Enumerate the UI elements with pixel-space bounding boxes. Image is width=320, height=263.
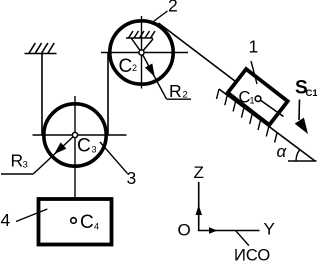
- svg-text:2: 2: [183, 90, 188, 101]
- svg-text:C1: C1: [306, 88, 318, 99]
- node C3 centerlines (crosshair of pulley 3, hanger to block 4): [33, 134, 127, 136]
- svg-text:2: 2: [132, 63, 137, 73]
- wire: rope from pulley 2 to load 1 (upper segment): [159, 23, 259, 99]
- label ISO with leader: [236, 231, 249, 246]
- radius R2 arrow: [142, 53, 167, 100]
- inclined plane surface line: [219, 89, 315, 161]
- svg-text:3: 3: [127, 168, 137, 188]
- svg-text:1: 1: [249, 37, 259, 57]
- svg-text:C: C: [119, 56, 133, 77]
- load block 4: [39, 199, 112, 245]
- wire: rope from wall support to pulley 3: [41, 54, 43, 136]
- Y axis arrowhead: [209, 227, 218, 234]
- pin support of pulley 2 (hatched bracket): [126, 31, 155, 53]
- svg-text:C: C: [80, 212, 94, 233]
- node C2 centerlines (crosshair of pulley 2): [101, 52, 188, 54]
- wall support (fixed ceiling, top-left): [25, 43, 57, 54]
- label 3 with leader: [100, 142, 128, 174]
- svg-text:4: 4: [1, 210, 11, 230]
- label 4 with leader: [16, 209, 47, 222]
- inclined plane hatching: [217, 89, 278, 143]
- radius R3 arrow: [33, 135, 75, 174]
- svg-text:4: 4: [94, 222, 99, 232]
- svg-text:Y: Y: [264, 220, 275, 239]
- baseline of angle alpha: [288, 160, 317, 162]
- wire: rope from pulley 2 to load 1 (segment inside block): [258, 99, 284, 117]
- label 1 with leader: [251, 61, 257, 84]
- svg-text:O: O: [178, 221, 191, 240]
- coordinate axes (inertial frame): [199, 182, 260, 231]
- svg-text:α: α: [277, 142, 288, 161]
- svg-text:2: 2: [168, 0, 178, 16]
- svg-text:C: C: [77, 136, 91, 157]
- angle alpha arc: [296, 150, 300, 161]
- node C1: [255, 96, 261, 102]
- label 2 with leader: [152, 11, 168, 23]
- svg-text:3: 3: [23, 160, 28, 171]
- pin node at C2: [139, 50, 144, 55]
- svg-text:ИСО: ИСО: [234, 247, 270, 263]
- block 1 on incline: [228, 69, 288, 125]
- label R2 with leader underline: [167, 98, 192, 100]
- pulley 3: [44, 104, 106, 166]
- svg-text:R: R: [169, 81, 182, 101]
- svg-text:1: 1: [250, 96, 255, 106]
- Z axis arrowhead: [196, 205, 203, 215]
- label R3 with leader underline: [1, 173, 33, 175]
- pin node at C3: [72, 132, 77, 137]
- displacement vector S_C1: [298, 100, 301, 121]
- svg-text:Z: Z: [194, 163, 204, 182]
- pulley 2: [110, 21, 173, 84]
- svg-text:R: R: [11, 151, 24, 171]
- svg-text:3: 3: [92, 145, 97, 155]
- node C4: [71, 218, 77, 224]
- wire: rope between pulley 3 and pulley 2: [107, 53, 109, 136]
